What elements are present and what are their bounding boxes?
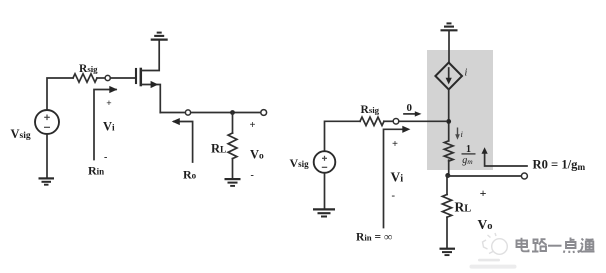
watermark faint streaks [478,259,500,262]
wire: 1/gm bottom to junction2 [448,160,450,176]
ground (below RL right) [440,248,456,250]
node: open terminal after Rsig (left) [105,75,110,80]
svg-text:+: + [250,120,256,131]
wire: diamond to junction to 1/gm resistor [448,90,450,141]
svg-text:i: i [465,68,468,79]
char 路 [532,239,547,251]
resistor RL (left) [232,113,234,134]
svg-text:0: 0 [407,102,413,114]
char 电 [517,238,529,252]
node: junction at RL (left) [230,110,235,115]
char 通 [580,239,595,252]
svg-text:1: 1 [466,144,471,155]
transistor Q1 source lead with arrow [142,85,161,113]
wire: bottom output wire of left circuit [160,112,261,114]
ground (top of left circuit, inverted) [151,38,168,40]
node: open terminal after Rsig (right) [393,119,399,125]
resistor 1/gm [444,141,453,161]
svg-text:Rin: Rin [88,163,104,177]
resistor Rsig (right) [360,117,384,125]
wire: junction2 down to RL (right) [446,176,448,195]
watermark text 电路一点通 drawn as strokes [517,238,595,254]
wire: RL bottom to ground (right) [446,217,448,248]
node: input junction (right) [446,119,451,124]
svg-text:Ro: Ro [183,168,197,182]
char 一 [548,245,562,247]
transistor Q1 drain lead [142,41,159,71]
svg-text:Rsig: Rsig [361,104,380,116]
svg-text:+: + [106,99,111,109]
char 点 [564,238,579,254]
transistor Q1 channel bar [140,68,143,87]
svg-text:gm: gm [462,155,473,166]
svg-text:-: - [251,170,254,181]
resistor RL (right) [442,195,451,218]
ground (top of right circuit, inverted) [441,29,458,31]
annotation: Ro arrow (left) [174,122,193,163]
svg-text:Vsig: Vsig [290,156,310,170]
annotation: i arrow into 1/gm [457,128,459,136]
transistor Q1 (MOSFET) gate bar [135,69,137,83]
wire: Vsig bottom to ground [46,134,48,178]
svg-text:-: - [392,191,396,202]
shaded region [427,50,493,170]
ground (below RL left) [225,178,241,180]
svg-text:-: - [104,152,107,163]
node: right output terminal (left circuit) [261,110,267,116]
watermark logo (faint) [483,233,508,254]
svg-text:+: + [392,139,398,150]
annotation: R0 leader with up arrow [485,152,527,167]
wire: top ground to current source [448,31,450,63]
svg-text:Rin = ∞: Rin = ∞ [356,232,392,244]
wire: Vsig top to Rsig (left horizontal input wire) [47,78,73,110]
svg-text:Rsig: Rsig [79,63,98,75]
ground (below Vsig left) [39,177,55,179]
wire: junction2 to output terminal [448,175,522,177]
wire: terminal to MOSFET gate [110,77,135,79]
annotation: Vi arrow + measure line (right) [384,129,405,227]
svg-text:+: + [480,186,487,200]
node: output junction (right) [445,173,450,178]
source Vsig (left) [35,110,59,134]
wire: Rsig to terminal (right) [384,120,393,122]
wire: terminal to junction [399,120,447,122]
node: output open terminal (right) [521,173,527,179]
wire: Vsig bottom to ground (right) [324,173,326,208]
wire: Rsig to terminal (left) [97,77,105,79]
resistor Rsig (left) zigzag [73,74,97,82]
ground (below Vsig right) [313,208,335,210]
annotation: Rin arrow + Vi measure line (left) [94,90,116,160]
wire: Vsig(right) top wire [325,121,361,151]
node: open terminal on bottom wire [185,110,190,115]
source Vsig (right) [314,151,336,173]
dependent current source (diamond) [435,63,462,90]
